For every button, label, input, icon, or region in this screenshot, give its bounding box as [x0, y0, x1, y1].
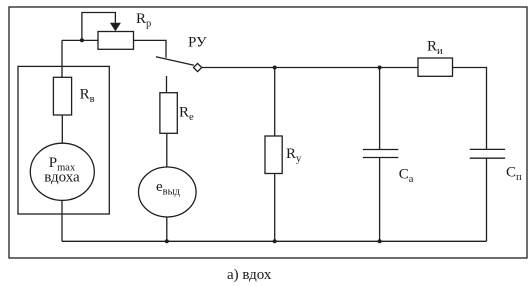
switch PY blade	[156, 57, 194, 66]
potentiometer Rp body	[98, 32, 134, 50]
wire source to bottom bus	[166, 217, 168, 241]
wire Ru top lead	[274, 68, 276, 137]
source Pmax vdoha	[30, 143, 94, 200]
junction bottom bus e	[165, 239, 169, 243]
wire Cp bottom lead	[486, 158, 488, 241]
resistor Ri body	[418, 58, 453, 76]
svg-text:РУ: РУ	[188, 35, 207, 51]
wire wiper loop	[82, 13, 116, 40]
wire Ri to right corner	[453, 68, 487, 150]
junction top bus Ca	[378, 66, 382, 70]
junction bottom bus Ca	[378, 239, 382, 243]
source e_vyd	[139, 167, 197, 217]
wire Pmax to bottom bus	[61, 200, 63, 241]
wire top bus segment 2	[275, 67, 380, 69]
wire top bus segment 1	[202, 67, 275, 69]
wire left branch vertical	[61, 40, 63, 78]
wire top bus segment 3	[380, 67, 418, 69]
junction bottom bus Ru	[273, 239, 277, 243]
wire Ca top lead	[379, 68, 381, 150]
resistor Ru body	[265, 136, 282, 174]
box pressure source block	[18, 66, 109, 214]
capacitor Cp top plate	[470, 148, 505, 150]
wire Ru bottom lead	[274, 174, 276, 242]
capacitor Cp bottom plate	[470, 157, 505, 159]
junction wiper tap	[80, 38, 84, 42]
wire pot right lead	[134, 40, 167, 57]
resistor Rv body	[53, 77, 71, 115]
wire Rv to source	[61, 115, 63, 143]
capacitor Ca top plate	[363, 149, 398, 151]
svg-text:вдоха: вдоха	[44, 169, 80, 185]
wire Re top lead	[166, 76, 168, 93]
svg-text:а) вдох: а) вдох	[227, 267, 272, 283]
potentiometer wiper arrow	[110, 23, 121, 31]
wire pot left lead	[62, 39, 98, 41]
wire Ca bottom lead	[379, 158, 381, 242]
wire Re to source	[166, 133, 168, 167]
resistor Re body	[160, 93, 177, 134]
capacitor Ca bottom plate	[363, 157, 398, 159]
junction top bus Ru	[273, 66, 277, 70]
switch PY contact	[194, 63, 202, 71]
wire bottom bus	[62, 240, 487, 242]
